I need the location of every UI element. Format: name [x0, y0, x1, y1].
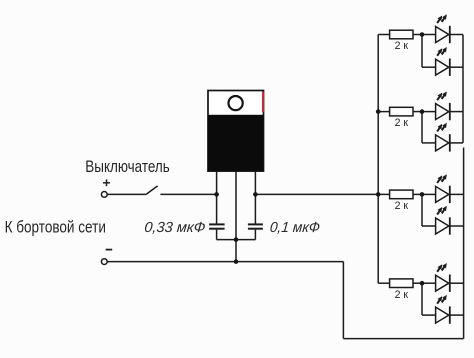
U1 pin 3 output lead down to C2: [254, 171, 256, 223]
capacitor C1 plates: [209, 224, 225, 228]
LED VD5: [436, 174, 450, 203]
red mark on tab edge: [262, 92, 264, 112]
U1 pin 2 ground lead down to minus rail: [235, 171, 237, 262]
node: output pin / wire to bus: [253, 192, 258, 197]
wire: cathode bus lower (branches 3-4): [463, 148, 465, 339]
wire: cathode bus upper (branches 1-2): [462, 35, 464, 143]
svg-text:Выключатель: Выключатель: [85, 157, 170, 176]
resistor R2 2k: [390, 107, 413, 129]
wire: bottom return: [343, 338, 463, 340]
node: input pin / switch wire: [214, 192, 219, 197]
voltage regulator U1 package: [208, 91, 264, 172]
branch 2: [378, 112, 463, 143]
node: bus / branch 2: [376, 109, 381, 114]
plus terminal: [101, 192, 107, 198]
node: ground pin / cap link: [234, 237, 239, 242]
LED VD2: [436, 47, 450, 76]
node: branch 3 split: [420, 192, 425, 197]
wire: switch to regulator input pin node: [160, 193, 216, 195]
LED VD6: [436, 206, 450, 235]
wire: minus rail drop on right: [342, 262, 344, 339]
LED VD4: [436, 123, 450, 152]
svg-text:0,33 мкФ: 0,33 мкФ: [144, 220, 207, 236]
svg-text:0,1 мкФ: 0,1 мкФ: [269, 220, 321, 236]
branch 4: [378, 283, 463, 315]
wire: switch terminal to blade pivot: [107, 193, 146, 195]
switch blade: [146, 186, 158, 195]
capacitor C1 bottom lead: [216, 230, 218, 240]
minus sign: [106, 249, 113, 251]
svg-text:К бортовой сети: К бортовой сети: [5, 218, 106, 237]
branch 3: [378, 194, 463, 226]
node: ground pin / minus rail: [234, 259, 239, 264]
LED VD8: [436, 295, 450, 324]
plus sign: [103, 179, 110, 186]
resistor R4 2k: [390, 279, 413, 301]
capacitor C2 bottom lead: [254, 230, 256, 240]
wire: capacitor common link: [217, 239, 256, 241]
node: branch 1 split: [420, 32, 425, 37]
resistor R3 2k: [390, 190, 413, 212]
wire: minus rail: [107, 261, 343, 263]
wire: LED supply bus vertical: [377, 35, 379, 284]
LED VD3: [436, 91, 450, 120]
LED VD7: [436, 263, 450, 292]
branch 1: [378, 35, 463, 68]
capacitor C2 plates: [248, 224, 263, 228]
wire: regulator output to LED supply bus: [255, 193, 378, 195]
node: branch 4 split: [420, 281, 425, 286]
LED VD1: [436, 14, 450, 43]
node: bus / branch 3: [376, 192, 381, 197]
U1 pin 1 input lead down to C1: [216, 171, 218, 223]
minus terminal: [101, 259, 107, 265]
node: branch 2 split: [420, 109, 425, 114]
resistor R1 2k: [390, 30, 413, 52]
